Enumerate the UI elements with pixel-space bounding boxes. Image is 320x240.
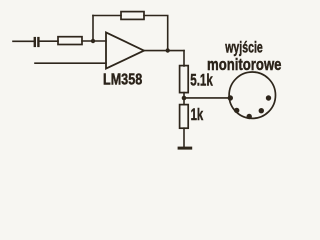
wire C1 to R1 — [40, 40, 58, 42]
node output junction — [166, 48, 170, 52]
svg-text:1k: 1k — [191, 106, 204, 124]
wire R1 to op-amp — [82, 40, 106, 42]
resistor R3 5.1k — [180, 66, 189, 93]
svg-text:monitorowe: monitorowe — [207, 55, 282, 74]
wire output — [144, 50, 184, 52]
wire output corner down to R3 — [183, 51, 185, 66]
ground — [178, 147, 193, 150]
wire input bottom — [35, 62, 106, 64]
wire feedback up — [92, 16, 94, 42]
resistor R2 (feedback) — [121, 12, 144, 20]
resistor R1 — [58, 37, 82, 45]
wire node to DIN pin — [184, 97, 230, 99]
svg-text:5.1k: 5.1k — [190, 71, 213, 89]
node divider junction — [182, 96, 187, 101]
op-amp U1 LM358 — [106, 32, 144, 68]
wire R4 to ground — [183, 128, 185, 146]
wire R2 to output node — [144, 16, 168, 51]
capacitor C1 — [34, 37, 40, 47]
wire R3 to divider node — [183, 93, 185, 105]
DIN connector J1 outline — [229, 72, 275, 118]
DIN pins — [228, 95, 272, 119]
wire input top — [13, 40, 34, 42]
wire top rail to R2 — [93, 15, 121, 17]
resistor R4 1k — [180, 105, 189, 129]
svg-text:LM358: LM358 — [103, 72, 142, 89]
node A (feedback junction) — [91, 39, 95, 43]
